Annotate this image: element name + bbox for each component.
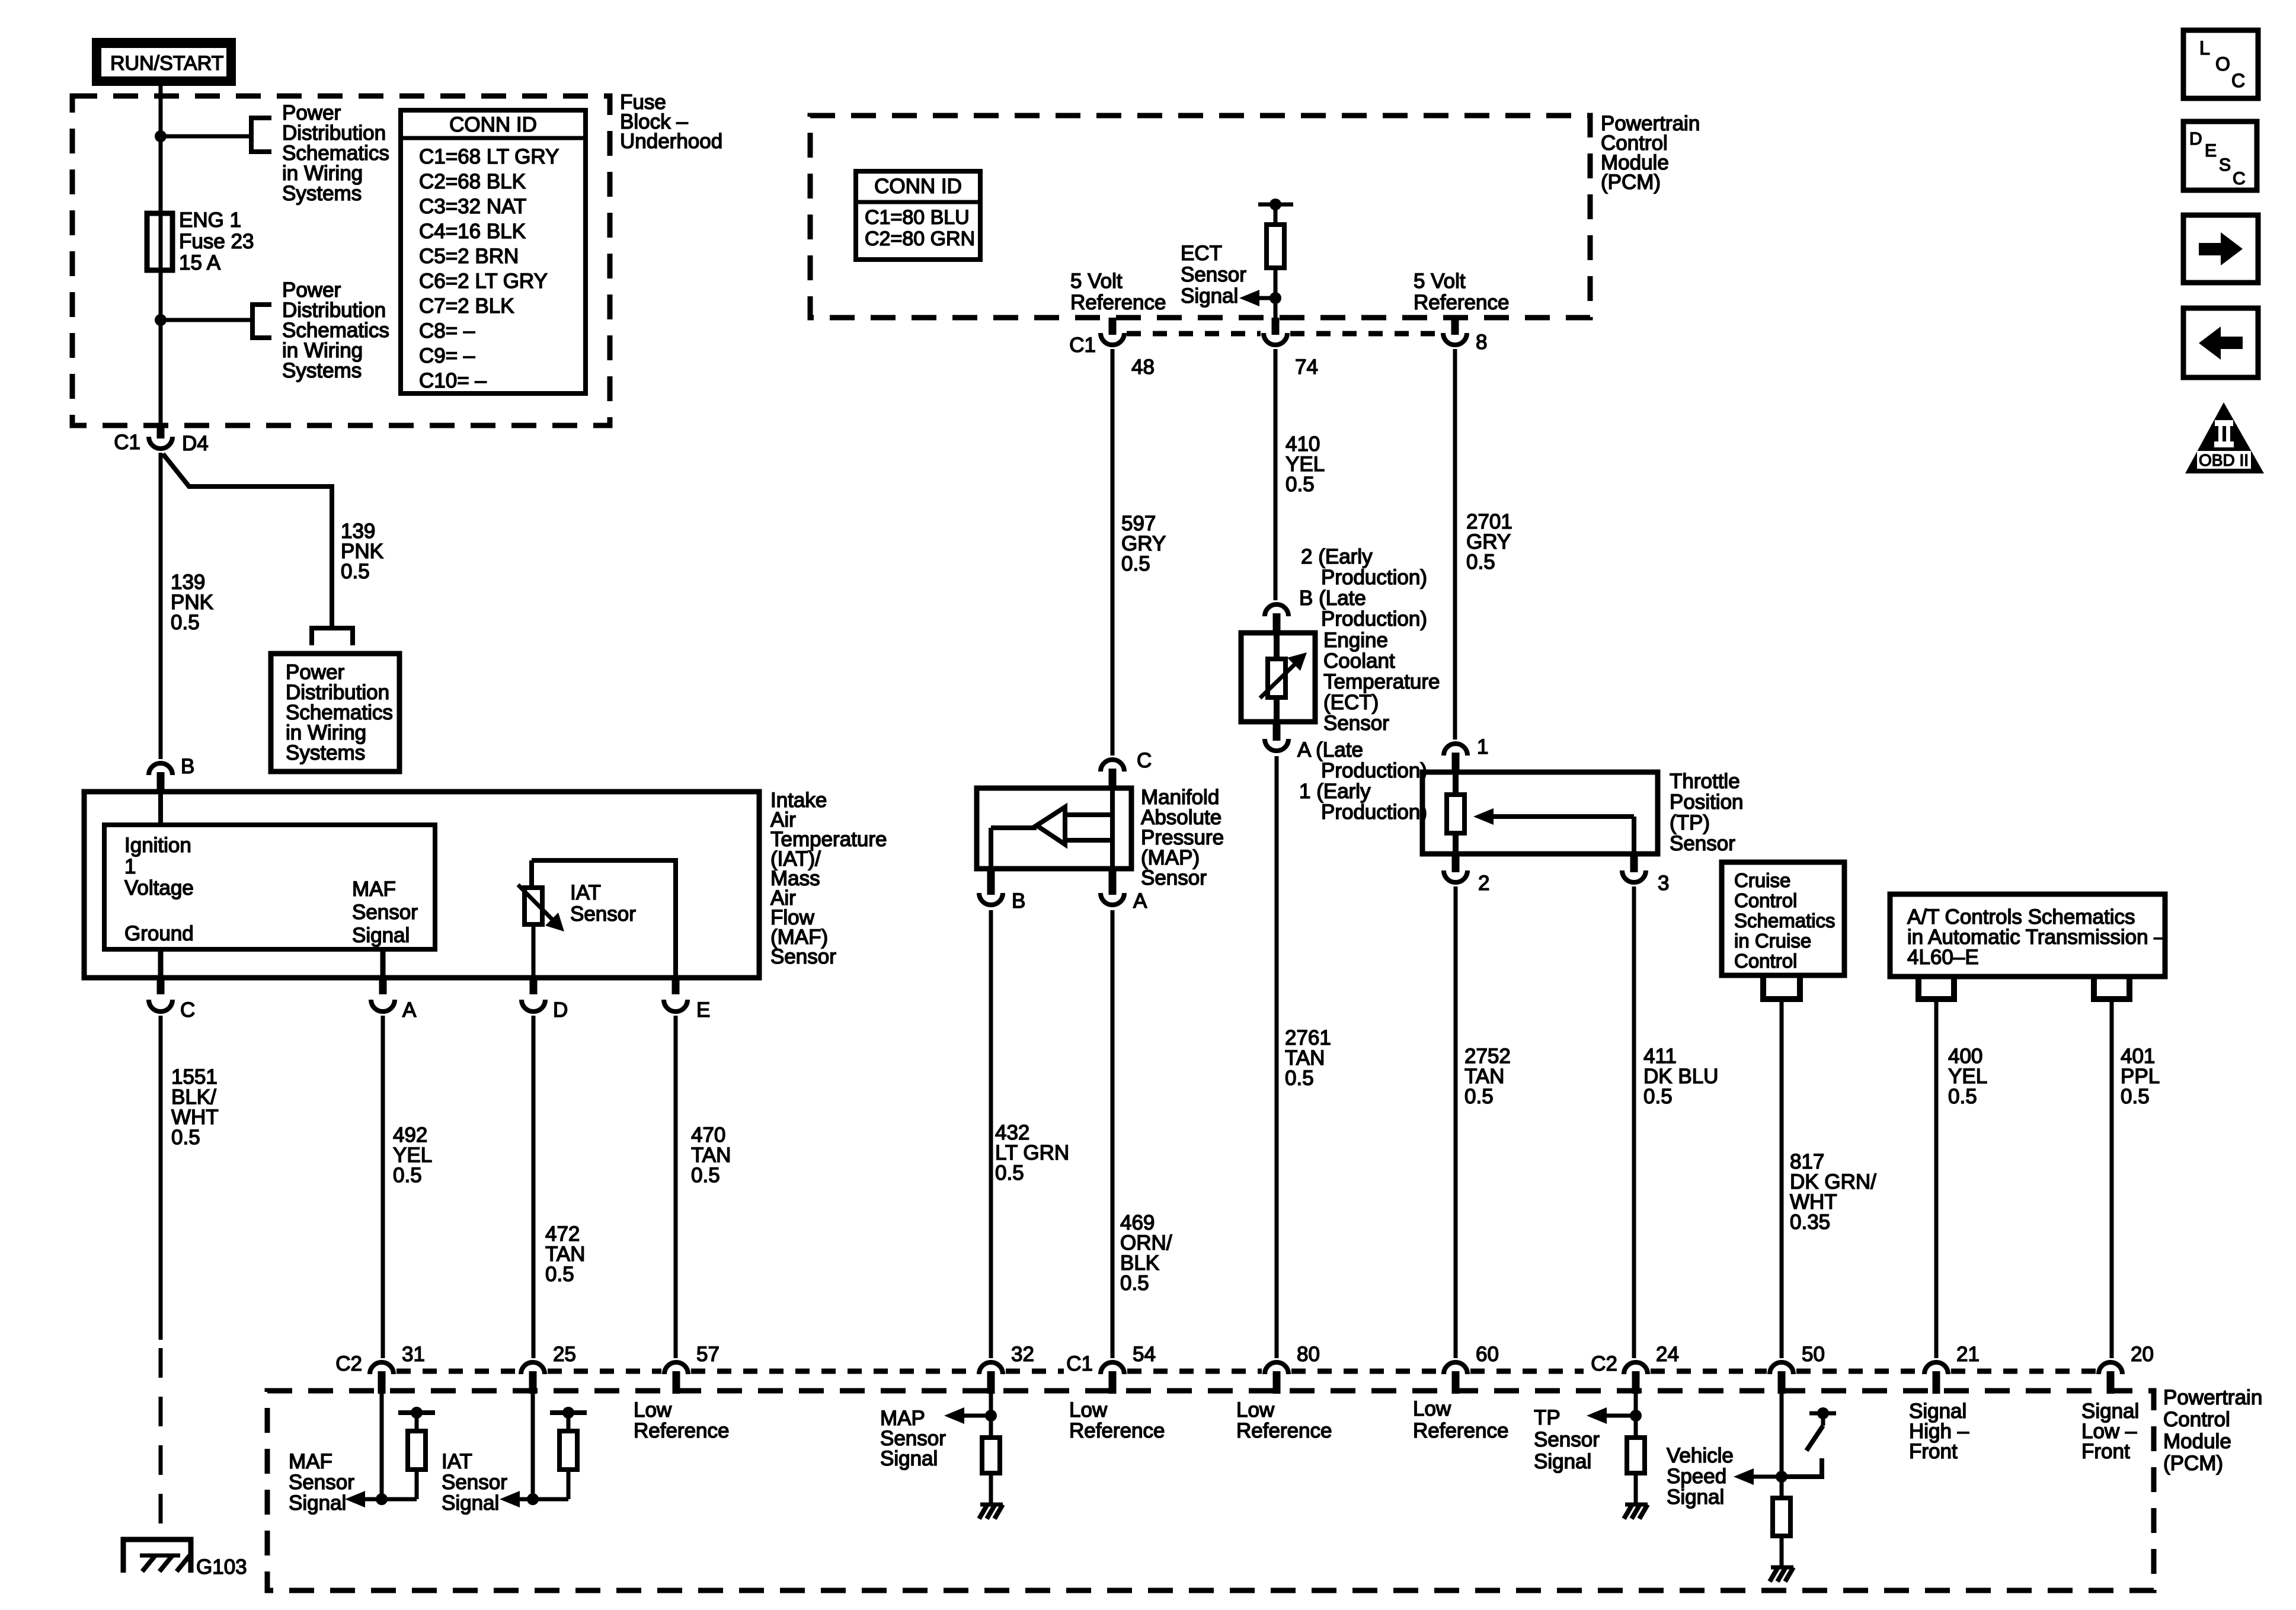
MAF pull-up supply T bar bbox=[398, 1410, 435, 1415]
svg-text:Sensor: Sensor bbox=[1141, 866, 1207, 889]
svg-text:C10= –: C10= – bbox=[419, 369, 487, 392]
MAP internal wiring bbox=[1110, 790, 1115, 869]
svg-text:B (Late: B (Late bbox=[1299, 587, 1366, 610]
svg-text:Control: Control bbox=[2163, 1408, 2230, 1431]
svg-text:Sensor: Sensor bbox=[1534, 1428, 1600, 1451]
svg-text:Underhood: Underhood bbox=[620, 130, 722, 153]
wire 2761 TAN bbox=[1275, 756, 1279, 1358]
svg-text:Production): Production) bbox=[1321, 759, 1427, 782]
svg-text:Sensor: Sensor bbox=[1670, 832, 1735, 855]
right arrow icon box bbox=[2183, 215, 2258, 283]
wire MAF signal pin A inside box bbox=[380, 949, 386, 978]
connector D of MAF bbox=[522, 1000, 545, 1012]
vehicle speed signal arrow bbox=[1754, 1475, 1782, 1479]
powertrain control module dashed box bottom bbox=[267, 1391, 2154, 1590]
wire 470 TAN bbox=[674, 1016, 678, 1358]
svg-text:Signal: Signal bbox=[880, 1447, 938, 1470]
svg-text:1 (Early: 1 (Early bbox=[1299, 780, 1371, 803]
svg-text:MAF: MAF bbox=[289, 1450, 332, 1473]
svg-text:57: 57 bbox=[696, 1343, 720, 1366]
reference bracket upper bbox=[251, 118, 271, 152]
svg-text:C1=80 BLU: C1=80 BLU bbox=[865, 206, 970, 229]
MAF pull-up resistor bbox=[415, 1413, 419, 1431]
svg-text:Engine: Engine bbox=[1323, 629, 1388, 652]
svg-text:0.35: 0.35 bbox=[1790, 1211, 1830, 1234]
svg-text:Ignition: Ignition bbox=[124, 834, 191, 857]
svg-text:Low: Low bbox=[1413, 1397, 1451, 1420]
svg-text:(TP): (TP) bbox=[1670, 811, 1710, 834]
svg-text:Sensor: Sensor bbox=[442, 1471, 507, 1494]
svg-text:0.5: 0.5 bbox=[393, 1164, 422, 1187]
MAP sensor box bbox=[977, 788, 1131, 869]
svg-text:C: C bbox=[2231, 70, 2245, 91]
svg-text:C1: C1 bbox=[1069, 334, 1096, 357]
MAP sensor signal arrow bbox=[964, 1414, 991, 1418]
svg-text:CONN ID: CONN ID bbox=[449, 113, 537, 136]
svg-text:50: 50 bbox=[1802, 1343, 1825, 1366]
svg-text:5 Volt: 5 Volt bbox=[1414, 270, 1466, 293]
svg-text:B: B bbox=[181, 755, 194, 778]
left arrow icon box bbox=[2183, 308, 2258, 377]
svg-text:A: A bbox=[402, 998, 417, 1022]
IAT signal junction dot bbox=[527, 1493, 539, 1505]
connector 1 of TP bbox=[1444, 744, 1467, 756]
svg-text:Reference: Reference bbox=[1413, 1419, 1508, 1442]
wire 1551 BLK WHT solid run bbox=[159, 1016, 163, 1340]
wire IAT pin D stub bbox=[530, 978, 538, 994]
svg-text:Vehicle: Vehicle bbox=[1667, 1444, 1734, 1467]
svg-text:1: 1 bbox=[1477, 735, 1488, 758]
MAP pull-down resistor bbox=[982, 1438, 1000, 1473]
svg-text:Ground: Ground bbox=[124, 922, 194, 945]
connector 2 of TP bbox=[1452, 854, 1460, 872]
svg-text:80: 80 bbox=[1297, 1343, 1320, 1366]
svg-text:Throttle: Throttle bbox=[1670, 770, 1740, 793]
svg-text:Sensor: Sensor bbox=[289, 1471, 354, 1494]
IAT sensor signal arrow bbox=[517, 1497, 568, 1502]
MAP signal junction dot bbox=[985, 1410, 997, 1422]
svg-text:C3=32 NAT: C3=32 NAT bbox=[419, 195, 526, 218]
svg-text:C9= –: C9= – bbox=[419, 344, 475, 367]
wire 2752 TAN bbox=[1454, 886, 1458, 1358]
svg-text:L: L bbox=[2199, 37, 2210, 59]
svg-text:IAT: IAT bbox=[442, 1450, 472, 1473]
svg-text:Voltage: Voltage bbox=[124, 876, 194, 900]
svg-text:20: 20 bbox=[2131, 1343, 2154, 1366]
wire 401 PPL bbox=[2110, 999, 2114, 1358]
MAP amplifier triangle bbox=[1037, 807, 1065, 844]
svg-text:Control: Control bbox=[1734, 950, 1797, 972]
vehicle speed ground bbox=[1771, 1566, 1793, 1570]
OBD II triangle icon bbox=[2185, 402, 2264, 473]
svg-text:0.5: 0.5 bbox=[1121, 552, 1150, 575]
PCM pin 20 connector bbox=[2099, 1362, 2122, 1374]
svg-text:0.5: 0.5 bbox=[545, 1263, 574, 1286]
vehicle speed signal junction dot bbox=[1776, 1471, 1787, 1483]
svg-text:Sensor: Sensor bbox=[1181, 263, 1246, 286]
connector C of MAF bbox=[149, 1000, 172, 1012]
svg-text:0.5: 0.5 bbox=[691, 1164, 720, 1187]
svg-text:Signal: Signal bbox=[1667, 1486, 1724, 1509]
svg-text:S: S bbox=[2219, 155, 2231, 175]
wire pin 50 vehicle speed bbox=[1780, 1394, 1784, 1498]
svg-text:E: E bbox=[696, 998, 710, 1022]
svg-text:Temperature: Temperature bbox=[1323, 670, 1440, 693]
svg-text:0.5: 0.5 bbox=[2121, 1085, 2150, 1108]
wire 597 GRY from pin 48 bbox=[1111, 349, 1115, 756]
PCM pin 25 connector bbox=[521, 1362, 545, 1374]
svg-text:24: 24 bbox=[1656, 1343, 1679, 1366]
svg-text:Low: Low bbox=[634, 1398, 672, 1422]
IAT pull-up resistor bbox=[567, 1413, 571, 1431]
vehicle speed switch blade bbox=[1806, 1426, 1823, 1451]
AT controls schematics reference box bbox=[1890, 894, 2165, 977]
svg-text:Signal: Signal bbox=[352, 924, 410, 947]
wire branch to power distribution reference upper bbox=[161, 135, 251, 139]
connector A of ECT bbox=[1273, 722, 1281, 741]
wire stub into inner box bbox=[158, 794, 163, 827]
svg-text:C2=68 BLK: C2=68 BLK bbox=[419, 170, 526, 193]
PCM pin 80 connector bbox=[1265, 1362, 1288, 1374]
branch wire to 139 PNK right run bbox=[163, 454, 332, 627]
vehicle speed pull-down resistor bbox=[1773, 1498, 1790, 1536]
svg-text:Systems: Systems bbox=[286, 741, 365, 764]
fuse ENG 1 Fuse 23 15 A bbox=[147, 213, 172, 270]
PCM pin 32 connector bbox=[979, 1362, 1003, 1374]
svg-text:Sensor: Sensor bbox=[1323, 712, 1389, 735]
svg-text:Fuse 23: Fuse 23 bbox=[179, 230, 254, 253]
svg-text:E: E bbox=[2205, 141, 2217, 161]
svg-text:21: 21 bbox=[1956, 1343, 1980, 1366]
PCM pin 57 connector bbox=[664, 1362, 688, 1374]
PCM pin 8 connector bbox=[1451, 318, 1459, 335]
ground G103 symbol bbox=[123, 1539, 191, 1573]
TP wiper arrow bbox=[1494, 814, 1634, 819]
ECT pull-up supply T bar bbox=[1258, 203, 1293, 207]
svg-text:32: 32 bbox=[1011, 1343, 1034, 1366]
connector E of MAF bbox=[664, 1000, 687, 1012]
svg-text:0.5: 0.5 bbox=[1948, 1085, 1977, 1108]
svg-text:Sensor: Sensor bbox=[770, 945, 836, 968]
wire from RUN/START down through fuse to connector C1-D4 bbox=[159, 86, 163, 425]
svg-text:Front: Front bbox=[1909, 1440, 1958, 1463]
vehicle speed switch supply bar bbox=[1809, 1411, 1836, 1416]
wire 817 DK GRN WHT bbox=[1780, 999, 1784, 1358]
wire pin 24 TP signal bbox=[1634, 1394, 1638, 1438]
ECT sensor signal junction dot bbox=[1269, 292, 1281, 304]
CONN ID table PCM bbox=[856, 171, 980, 260]
svg-text:ENG 1: ENG 1 bbox=[179, 209, 241, 232]
svg-text:2: 2 bbox=[1478, 872, 1489, 895]
wire to ECT pull-up resistor bbox=[1274, 204, 1278, 225]
powertrain control module dashed box top bbox=[810, 116, 1590, 318]
connector B of ECT bbox=[1265, 604, 1288, 616]
svg-text:Systems: Systems bbox=[282, 359, 362, 382]
svg-text:ECT: ECT bbox=[1181, 242, 1222, 265]
AT left reference bracket bbox=[1918, 979, 1954, 999]
svg-text:54: 54 bbox=[1133, 1343, 1156, 1366]
svg-text:0.5: 0.5 bbox=[1464, 1085, 1494, 1108]
svg-text:Production): Production) bbox=[1321, 801, 1427, 824]
svg-text:Powertrain: Powertrain bbox=[2163, 1386, 2262, 1409]
svg-text:C: C bbox=[2233, 169, 2246, 188]
PCM pin 24 connector bbox=[1624, 1362, 1648, 1374]
reference bracket lower bbox=[252, 305, 271, 338]
svg-text:4L60–E: 4L60–E bbox=[1907, 946, 1979, 969]
svg-text:Reference: Reference bbox=[1414, 291, 1509, 314]
svg-text:Sensor: Sensor bbox=[570, 902, 636, 926]
wire 472 TAN bbox=[532, 1016, 536, 1358]
ECT thermistor bbox=[1274, 635, 1280, 659]
RUN/START hot-in-run/start label box bbox=[92, 38, 236, 86]
svg-text:RUN/START: RUN/START bbox=[110, 52, 223, 75]
ECT thermistor arrow bbox=[1260, 658, 1302, 698]
TP sensor signal arrow bbox=[1607, 1414, 1636, 1418]
PCM pin 50 connector bbox=[1770, 1362, 1793, 1374]
svg-text:Schematics: Schematics bbox=[1734, 910, 1835, 932]
svg-text:CONN ID: CONN ID bbox=[874, 175, 962, 198]
svg-text:Sensor: Sensor bbox=[352, 901, 418, 924]
svg-text:Control: Control bbox=[1734, 889, 1797, 911]
wire ECT resistor to junction bbox=[1274, 268, 1278, 318]
MAF inner box bbox=[104, 825, 435, 949]
IAT sensor loop wiring bbox=[532, 858, 678, 863]
dotted connector line bottom row bbox=[396, 1369, 518, 1374]
AT right reference bracket bbox=[2094, 979, 2129, 999]
svg-text:C2: C2 bbox=[335, 1352, 362, 1375]
wire 492 YEL bbox=[381, 1016, 385, 1358]
svg-text:8: 8 bbox=[1476, 331, 1487, 354]
svg-text:C8= –: C8= – bbox=[419, 319, 475, 343]
PCM pin 48 connector bbox=[1109, 318, 1117, 335]
IAT pull-up supply T bar bbox=[550, 1410, 587, 1415]
cruise control schematics reference box bbox=[1722, 862, 1844, 975]
svg-text:Reference: Reference bbox=[1070, 291, 1166, 314]
svg-text:Reference: Reference bbox=[1069, 1419, 1165, 1442]
svg-text:Position: Position bbox=[1670, 790, 1744, 814]
CONN ID table fuse block bbox=[401, 110, 586, 393]
ECT sensor signal arrow bbox=[1259, 296, 1275, 300]
PCM pin 60 connector bbox=[1444, 1362, 1467, 1374]
wire IAT loop right side pin E bbox=[673, 860, 678, 978]
svg-text:(PCM): (PCM) bbox=[1601, 171, 1661, 194]
svg-text:0.5: 0.5 bbox=[1466, 550, 1495, 574]
MAF sensor signal arrow bbox=[364, 1497, 417, 1502]
svg-text:Coolant: Coolant bbox=[1323, 649, 1395, 673]
svg-text:3: 3 bbox=[1658, 872, 1669, 895]
svg-text:Production): Production) bbox=[1321, 607, 1427, 630]
svg-text:IAT: IAT bbox=[570, 881, 601, 904]
junction dot upper branch bbox=[155, 130, 167, 142]
MAP output wire bbox=[991, 825, 1037, 830]
svg-text:(PCM): (PCM) bbox=[2163, 1452, 2223, 1475]
PCM pin 31 connector bbox=[370, 1362, 394, 1374]
wire 410 YEL from pin 74 bbox=[1274, 349, 1278, 600]
svg-text:C1: C1 bbox=[114, 431, 140, 454]
svg-text:C4=16 BLK: C4=16 BLK bbox=[419, 220, 526, 243]
svg-text:Signal: Signal bbox=[289, 1491, 346, 1515]
wire below IAT thermistor bbox=[532, 924, 536, 978]
svg-text:(ECT): (ECT) bbox=[1323, 691, 1379, 714]
svg-text:0.5: 0.5 bbox=[1285, 1067, 1314, 1090]
PCM pin 21 connector bbox=[1924, 1362, 1948, 1374]
svg-text:Low: Low bbox=[1236, 1398, 1275, 1422]
svg-text:OBD II: OBD II bbox=[2199, 451, 2249, 469]
svg-text:Systems: Systems bbox=[282, 182, 362, 205]
svg-text:in Cruise: in Cruise bbox=[1734, 930, 1811, 952]
svg-text:15 A: 15 A bbox=[179, 251, 221, 274]
connector C1 D4 bbox=[157, 425, 165, 438]
svg-text:31: 31 bbox=[402, 1343, 425, 1366]
wire branch to power distribution reference lower bbox=[161, 318, 252, 322]
svg-text:0.5: 0.5 bbox=[995, 1161, 1024, 1185]
svg-text:Signal: Signal bbox=[442, 1491, 499, 1515]
dotted connector line top row bbox=[1127, 331, 1261, 337]
TP potentiometer bbox=[1453, 774, 1459, 854]
svg-text:C: C bbox=[1137, 749, 1152, 772]
connector B of MAP bbox=[987, 869, 995, 895]
wire 469 ORN BLK bbox=[1111, 910, 1115, 1358]
PCM pin 54 connector bbox=[1101, 1362, 1124, 1374]
fuse block underhood dashed box bbox=[72, 96, 610, 425]
svg-text:TP: TP bbox=[1534, 1406, 1560, 1429]
svg-text:C2=80 GRN: C2=80 GRN bbox=[865, 228, 975, 250]
TP pull-down ground bbox=[1625, 1503, 1648, 1507]
cruise reference bracket bbox=[1763, 978, 1800, 999]
LOC icon box bbox=[2183, 30, 2258, 98]
ECT pull-up resistor bbox=[1267, 225, 1284, 268]
svg-text:48: 48 bbox=[1131, 356, 1155, 379]
svg-text:D4: D4 bbox=[182, 432, 209, 455]
reference bracket down to power distribution box bbox=[312, 628, 353, 645]
MAP pull-down ground bbox=[980, 1503, 1003, 1507]
svg-text:C2: C2 bbox=[1591, 1352, 1617, 1375]
connector A of MAF bbox=[371, 1000, 395, 1012]
wire ground pin C inside box bbox=[158, 949, 164, 978]
TP signal junction dot bbox=[1630, 1410, 1642, 1422]
wire pin 25 to IAT signal junction bbox=[531, 1394, 535, 1499]
IAT thermistor arrow bbox=[518, 885, 559, 927]
svg-text:0.5: 0.5 bbox=[341, 560, 370, 583]
connector C of MAP sensor bbox=[1101, 760, 1124, 772]
svg-text:25: 25 bbox=[553, 1343, 576, 1366]
connector 3 of TP bbox=[1630, 854, 1638, 872]
svg-text:C: C bbox=[180, 998, 195, 1022]
svg-text:Signal: Signal bbox=[1534, 1450, 1591, 1473]
connector A of MAP bbox=[1109, 869, 1117, 895]
svg-text:Cruise: Cruise bbox=[1734, 869, 1790, 891]
svg-text:D: D bbox=[2189, 129, 2202, 149]
TP sensor box bbox=[1422, 772, 1658, 854]
vehicle speed switch hook bbox=[1782, 1458, 1822, 1477]
wire 411 DK BLU bbox=[1632, 886, 1636, 1358]
svg-text:Reference: Reference bbox=[1236, 1419, 1332, 1442]
wire pin 31 to MAF signal junction bbox=[380, 1394, 384, 1499]
svg-text:5 Volt: 5 Volt bbox=[1070, 270, 1123, 293]
svg-text:Signal: Signal bbox=[1181, 284, 1238, 308]
svg-text:0.5: 0.5 bbox=[171, 611, 200, 634]
svg-text:Low: Low bbox=[1069, 1398, 1108, 1422]
wire 1551 dashed run to G103 bbox=[159, 1348, 163, 1536]
svg-text:O: O bbox=[2215, 53, 2230, 75]
TP pull-down resistor bbox=[1627, 1438, 1645, 1473]
svg-text:0.5: 0.5 bbox=[171, 1126, 200, 1149]
svg-text:60: 60 bbox=[1476, 1343, 1499, 1366]
svg-text:Reference: Reference bbox=[634, 1419, 729, 1442]
svg-text:0.5: 0.5 bbox=[1285, 473, 1315, 496]
wire pin 32 MAP signal bbox=[989, 1394, 993, 1438]
DESC icon box bbox=[2183, 121, 2257, 190]
svg-text:Production): Production) bbox=[1321, 566, 1427, 589]
IAT thermistor bbox=[525, 888, 542, 924]
svg-text:C1: C1 bbox=[1066, 1352, 1093, 1375]
wire below C1-D4 to connector B bbox=[159, 453, 163, 759]
connector B above MAF box bbox=[149, 763, 172, 775]
svg-text:Front: Front bbox=[2081, 1440, 2130, 1463]
svg-text:C7=2 BLK: C7=2 BLK bbox=[419, 295, 514, 318]
wire 2701 GRY from pin 8 bbox=[1453, 349, 1457, 740]
svg-text:Speed: Speed bbox=[1667, 1465, 1726, 1488]
svg-text:74: 74 bbox=[1295, 356, 1318, 379]
wire 432 LT GRN bbox=[989, 910, 993, 1358]
svg-text:A: A bbox=[1133, 889, 1147, 913]
PCM pin 74 connector bbox=[1272, 318, 1280, 335]
ECT sensor box bbox=[1241, 633, 1315, 722]
svg-text:0.5: 0.5 bbox=[1643, 1085, 1673, 1108]
svg-text:0.5: 0.5 bbox=[1120, 1272, 1149, 1295]
svg-text:C1=68 LT GRY: C1=68 LT GRY bbox=[419, 145, 559, 168]
svg-text:2 (Early: 2 (Early bbox=[1301, 545, 1373, 568]
svg-text:B: B bbox=[1012, 889, 1025, 913]
svg-text:D: D bbox=[553, 998, 568, 1022]
IAT MAF sensor outer box bbox=[84, 792, 759, 978]
junction dot lower branch bbox=[155, 314, 167, 326]
svg-text:G103: G103 bbox=[196, 1555, 247, 1579]
svg-text:A (Late: A (Late bbox=[1297, 738, 1363, 761]
svg-text:Module: Module bbox=[2163, 1430, 2231, 1453]
svg-text:C6=2 LT GRY: C6=2 LT GRY bbox=[419, 270, 548, 293]
svg-text:1: 1 bbox=[124, 855, 136, 878]
svg-text:C5=2 BRN: C5=2 BRN bbox=[419, 245, 519, 268]
MAF signal junction dot bbox=[376, 1493, 388, 1505]
svg-text:MAF: MAF bbox=[352, 878, 396, 901]
wire 400 YEL bbox=[1934, 999, 1939, 1358]
power distribution schematics reference box bbox=[271, 654, 399, 772]
